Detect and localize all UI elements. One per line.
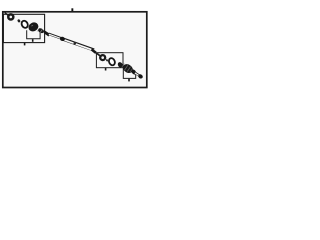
circlip O-ring (group 1) <box>20 20 29 29</box>
stub axle shaft (group 2) <box>135 73 140 76</box>
small band on shaft <box>73 41 76 45</box>
small spacer dot (group 2) <box>106 59 109 62</box>
callout tick below box 1 <box>24 43 26 46</box>
callout tick below box 2 <box>105 68 107 71</box>
stub axle band (group 2) <box>131 69 137 76</box>
highlight in joint body <box>31 25 34 27</box>
grooved ring (dark donut, group 2) <box>100 55 105 60</box>
callout tick below bracket 1 <box>32 39 34 42</box>
outer frame <box>3 12 147 88</box>
callout tick below bracket 2 <box>128 79 130 82</box>
highlight ribs in boot <box>125 65 128 70</box>
inset box 2 (outer joint kit) <box>96 53 123 68</box>
kit bracket 2 (open-top) <box>123 68 135 79</box>
spline slit on stub (group 1) <box>40 29 42 32</box>
inset box 1 (inner joint kit) <box>3 14 44 42</box>
circlip O-ring (group 2) <box>108 57 116 66</box>
shaft end cone <box>91 48 97 54</box>
inner grooved ring (dark donut, group 1) <box>8 14 13 19</box>
kit bracket 1 (open-top) <box>27 30 40 39</box>
shaft start cone <box>44 30 50 37</box>
snap-ring tail (group 2) <box>97 53 101 56</box>
outer joint boot (dark blob, group 2) <box>121 62 134 75</box>
inner joint body (dark blob, group 1) <box>27 21 40 33</box>
snap-ring tail (group 1) <box>5 13 8 16</box>
axle shaft wide section <box>62 39 95 50</box>
background <box>0 0 150 96</box>
small spacer dot (group 1) <box>17 19 21 23</box>
separation tripod/boot <box>122 63 125 67</box>
axle shaft thin section <box>49 34 63 39</box>
stub axle tip (group 2) <box>137 73 143 79</box>
tripod piece (group 2) <box>117 61 124 68</box>
separation blob/stub (group 1) <box>37 28 39 31</box>
callout tick 1 above frame <box>71 8 73 11</box>
stub splined piece (group 1) <box>37 27 45 34</box>
damper collar on shaft <box>59 36 65 42</box>
